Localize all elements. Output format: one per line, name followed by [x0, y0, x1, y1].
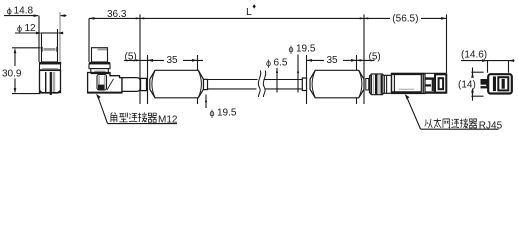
- label underline M12: [108, 123, 178, 125]
- plug contacts window: [439, 78, 444, 89]
- svg-text:ϕ: ϕ: [17, 23, 22, 33]
- extension tick (14) bottom: [471, 95, 483, 97]
- svg-text:ϕ: ϕ: [7, 6, 12, 16]
- M12 thread barrel (left view): [42, 33, 58, 62]
- wire cable segment 1: [208, 80, 258, 89]
- label text: yi tai wang lian jie qi RJ45: [425, 119, 433, 128]
- dim line phi12 left part with arrow: [15, 32, 41, 34]
- thread top gray band: [98, 48, 108, 50]
- dim line L*: [140, 17, 364, 19]
- slot gray sides: [98, 76, 100, 90]
- svg-text:12: 12: [25, 23, 37, 34]
- ferrule octagon left: [150, 70, 204, 98]
- dim line (14) top seg with up arrow: [472, 68, 474, 78]
- extension line 35 right (through ferrule): [197, 55, 199, 104]
- extension line junction right (long): [363, 14, 365, 104]
- RJ45 plug latch bars: [425, 77, 434, 79]
- flange body (left view): [40, 64, 61, 70]
- svg-text:19.5: 19.5: [217, 108, 237, 119]
- collar gray band: [95, 71, 106, 73]
- extension line 36.3 left: [88, 18, 90, 62]
- extension line 35 left: [147, 55, 149, 104]
- ferrule right collar: [204, 79, 208, 89]
- dim line 35 right: left part: [307, 59, 325, 61]
- extension stub phi12 right: [57, 29, 59, 33]
- coupling nut body (left view): [40, 70, 61, 92]
- nut bottom center stub: [50, 93, 52, 95]
- boot collar: [141, 78, 147, 90]
- flange bottom gray band: [42, 68, 58, 70]
- ferrule left end arc: [152, 71, 155, 98]
- svg-text:19.5: 19.5: [296, 44, 316, 55]
- dim line 35 left part: [148, 59, 165, 61]
- housing bottom edge thick: [88, 92, 122, 94]
- svg-text:(56.5): (56.5): [392, 13, 418, 24]
- svg-text:(5): (5): [369, 51, 381, 62]
- dim line 35 right part: [183, 59, 203, 61]
- leader phi19.5 bottom: [205, 95, 207, 109]
- svg-text:ϕ: ϕ: [210, 108, 215, 118]
- ferrule right: left end arc: [312, 71, 315, 98]
- housing inner line left: [393, 73, 395, 93]
- housing top edge thick: [392, 73, 425, 75]
- svg-text:L: L: [246, 6, 252, 18]
- nut bottom chamfer: [40, 91, 61, 93]
- ferrule octagon right: [310, 70, 364, 98]
- leader arrowhead RJ45: [405, 94, 410, 100]
- dim line (5) left with arrows: [124, 59, 154, 61]
- extension tick (14) top: [471, 71, 483, 73]
- extension line junction left (long): [139, 14, 141, 104]
- dim line phi14.8 left part with arrow: [4, 15, 38, 17]
- dim line 30.9 upper segment with up arrow: [14, 53, 16, 66]
- extension line phi14.8 right (gray): [59, 12, 61, 62]
- wire cable segment 2: [264, 80, 303, 89]
- extension line (56.5) right: [446, 14, 448, 73]
- dim line phi12 right part with arrow: [59, 32, 64, 34]
- housing top edge thick: [91, 72, 111, 74]
- svg-text:(14): (14): [458, 80, 476, 91]
- svg-text:35: 35: [167, 55, 179, 66]
- leader phi6.5: [276, 68, 278, 93]
- leader phi19.5 top: [297, 55, 299, 93]
- leader arrowhead M12: [96, 94, 101, 100]
- svg-text:RJ45: RJ45: [479, 120, 503, 131]
- dim line (14) bottom seg with down arrow: [472, 89, 474, 101]
- RJ45 plug bottom thick bar: [425, 91, 447, 93]
- small collar after ferrule: [366, 79, 369, 91]
- collar below flange: [91, 69, 109, 73]
- nut facet lines: [45, 72, 47, 92]
- front view inner bar: [493, 76, 496, 91]
- ferrule right: right end arc: [359, 71, 362, 98]
- svg-text:30.9: 30.9: [2, 69, 22, 80]
- cable boot (side view): [122, 78, 141, 92]
- label text: jiao xing lian jie qi M12: [111, 112, 117, 122]
- dim line 35 right: right part: [343, 59, 357, 61]
- window slot in housing: [97, 75, 107, 91]
- housing internal chamfer line: [107, 79, 114, 90]
- thread relief brackets: [42, 47, 57, 52]
- coupling nut top notched band: [40, 70, 61, 72]
- svg-text:14.8: 14.8: [14, 6, 34, 17]
- flange top thick edge: [39, 62, 61, 64]
- dim line (56.5) left seg: [364, 17, 390, 19]
- latch stub front: [481, 79, 488, 88]
- flange body (side view): [89, 64, 110, 69]
- svg-text:ϕ: ϕ: [289, 44, 294, 54]
- housing body (side view): [88, 73, 122, 93]
- extension line 35 right-right: [356, 55, 358, 104]
- ring between knurl and housing: [384, 75, 391, 93]
- cable break symbol: [258, 71, 260, 98]
- extension line 30.9 bottom: [12, 93, 41, 95]
- extension line 35 right-left (through ferrule): [306, 55, 308, 104]
- thread barrel (side view): [92, 48, 108, 62]
- dim line (5) right: [357, 59, 375, 61]
- front view body: [488, 74, 512, 93]
- housing bottom edge thick: [392, 91, 425, 93]
- label underline RJ45: [421, 128, 499, 130]
- svg-text:35: 35: [327, 55, 339, 66]
- dim line (56.5) right seg: [421, 17, 447, 19]
- housing end cap bars: [421, 74, 425, 93]
- ferrule right end arc: [198, 71, 201, 98]
- extension line 30.9 top: [12, 47, 41, 49]
- leader line RJ45 label: [407, 97, 421, 130]
- front view inner frame: [498, 77, 508, 90]
- svg-text:6.5: 6.5: [274, 58, 288, 69]
- extension line phi14.8 left: [38, 16, 40, 62]
- dim line phi14.8 right part with arrow: [60, 15, 66, 17]
- housing inner line bottom: [399, 88, 414, 90]
- RJ45 plug top edge: [425, 72, 446, 74]
- knurled grip nut: [370, 74, 385, 95]
- flange top thick edge (side view): [89, 62, 110, 64]
- dim line 36.3: [89, 17, 140, 19]
- thread shadow band: [44, 48, 56, 51]
- front view center bar: [502, 79, 505, 89]
- leader line M12 label: [98, 96, 108, 124]
- extension lines (14.6): [488, 61, 509, 73]
- dim line 30.9 lower segment with down arrow: [14, 79, 16, 90]
- svg-text:ϕ: ϕ: [266, 58, 271, 68]
- svg-text:(14.6): (14.6): [461, 50, 487, 61]
- svg-text:M12: M12: [158, 114, 178, 125]
- RJ45 plug tip: [435, 74, 446, 92]
- dim line (14.6): [461, 60, 515, 62]
- RJ45 housing body: [392, 73, 425, 93]
- ferrule right left collar: [302, 78, 306, 91]
- slot dark block: [98, 85, 104, 90]
